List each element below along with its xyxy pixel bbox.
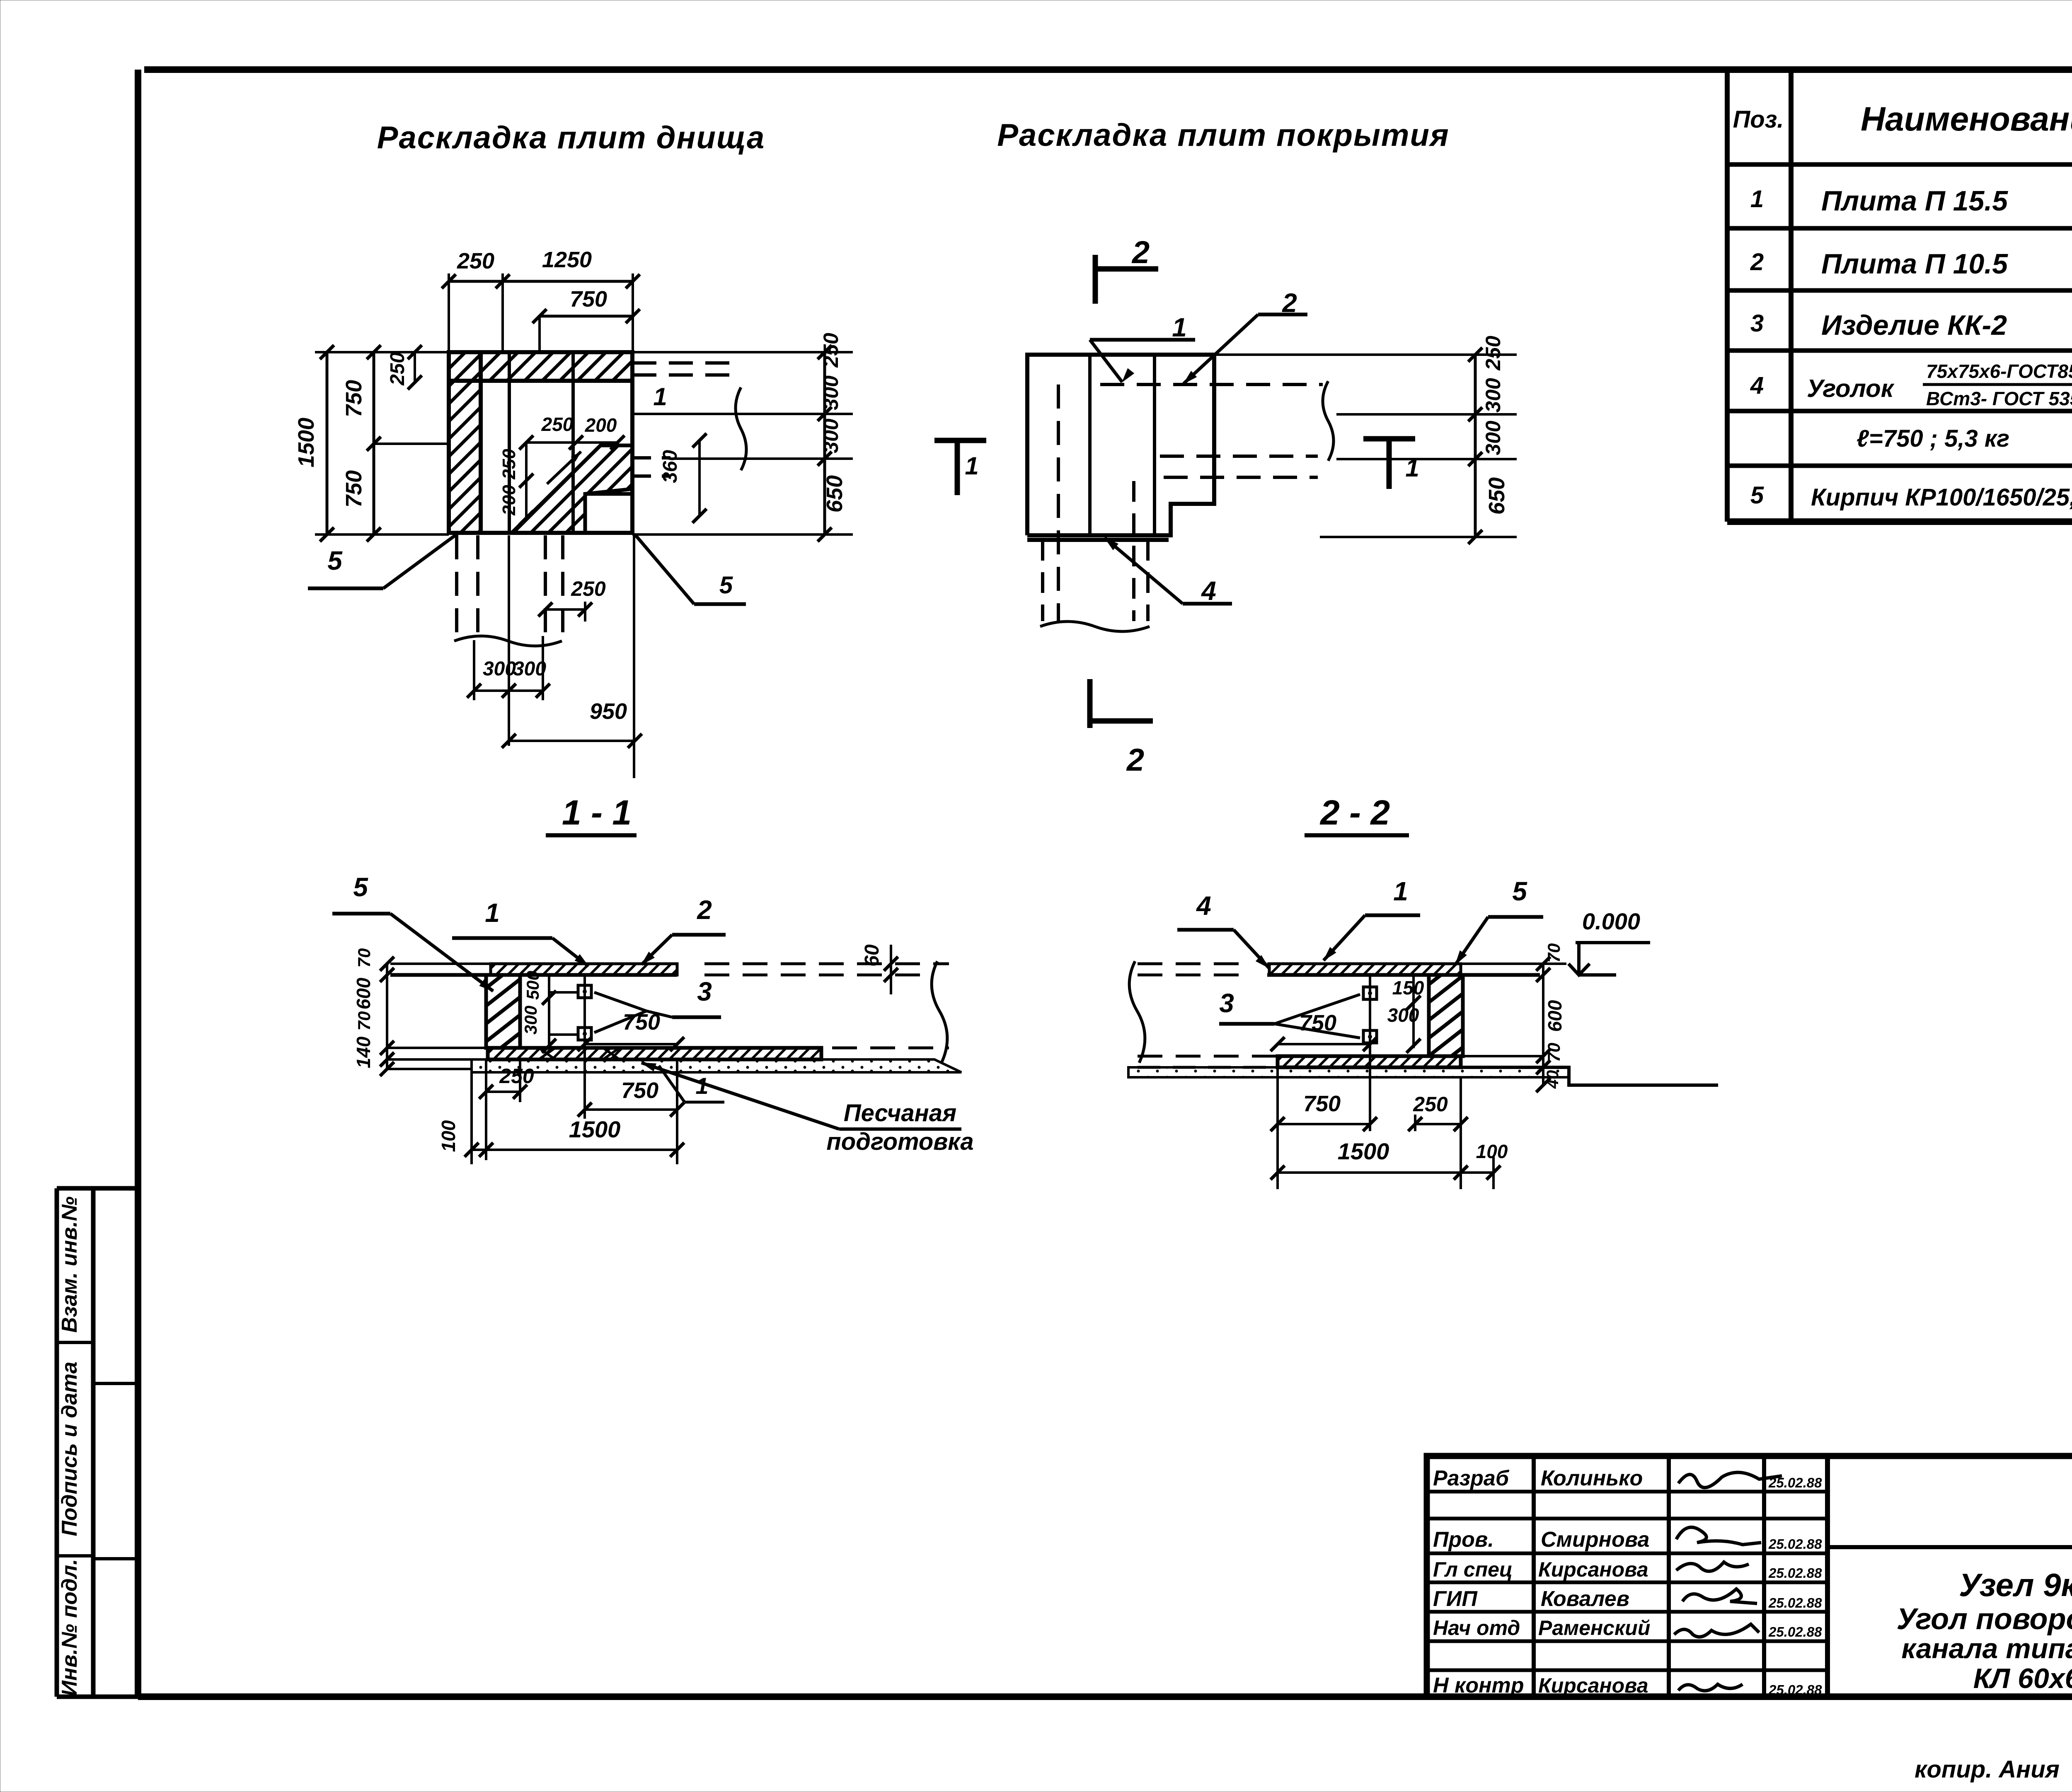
s11 dim 100 (472, 1149, 486, 1151)
view2 right ext lines (1216, 355, 1517, 537)
s11 anchor column line (583, 975, 586, 1073)
s22 top plate hatched (1269, 964, 1461, 975)
svg-text:750: 750 (341, 470, 366, 508)
s22 dim 750 bottom (1278, 1123, 1370, 1125)
svg-text:500: 500 (523, 971, 542, 1000)
view2 dashed wall lines (1100, 383, 1323, 386)
view2 right dim chain (1474, 355, 1477, 537)
svg-text:750: 750 (621, 1078, 658, 1103)
view1 right dim chain (823, 352, 826, 534)
s11 sand layer (472, 1059, 961, 1072)
view2 wavy break right (1323, 381, 1334, 461)
view1 top plate band hatch (449, 352, 632, 381)
view1 left ext lines (315, 352, 449, 534)
s11 left dim chain (386, 964, 388, 1069)
view2 section mark 1 right (1363, 436, 1415, 442)
svg-text:Колинько: Колинько (1541, 1466, 1643, 1490)
svg-text:1: 1 (1172, 312, 1187, 342)
svg-text:4: 4 (1196, 891, 1211, 921)
svg-text:Кирпич КР100/1650/25,м³: Кирпич КР100/1650/25,м³ (1811, 484, 2072, 511)
specification table grid (1727, 70, 2072, 522)
s11 anchor plates (578, 985, 591, 998)
svg-text:300: 300 (1387, 1004, 1419, 1026)
svg-text:360: 360 (659, 450, 681, 483)
svg-text:Раскладка плит днища: Раскладка плит днища (377, 120, 765, 155)
s22 dim 100 (1461, 1171, 1493, 1174)
svg-text:Плита П 10.5: Плита П 10.5 (1821, 248, 2008, 280)
svg-text:250: 250 (1481, 336, 1505, 371)
svg-text:1250: 1250 (542, 247, 592, 272)
view1 plate joints (509, 352, 573, 533)
svg-text:250: 250 (499, 449, 519, 480)
s22 wavy break left (1129, 961, 1145, 1063)
svg-text:250: 250 (541, 414, 574, 435)
svg-text:150: 150 (1392, 977, 1424, 999)
svg-text:Кирсанова: Кирсанова (1538, 1558, 1648, 1581)
svg-text:70: 70 (1544, 943, 1564, 963)
svg-text:70: 70 (1544, 1043, 1564, 1062)
svg-text:2: 2 (697, 895, 712, 925)
s11 brick wall hatched (486, 975, 520, 1048)
view1 bottom dims 300 300 (474, 689, 543, 692)
s11 dim 750 inner (585, 1043, 677, 1045)
view1 bottom dim 250 (545, 608, 585, 611)
s22 dims 150 300 (1412, 975, 1415, 1048)
view1 left plate band hatch (449, 352, 481, 533)
svg-text:250: 250 (387, 352, 409, 386)
svg-text:3: 3 (697, 977, 712, 1006)
svg-text:300: 300 (819, 375, 842, 410)
view1 dashed walls right (632, 361, 736, 365)
view2 plate joints (1090, 355, 1155, 535)
s22 ext verticals (1278, 1048, 1493, 1189)
svg-text:100: 100 (438, 1120, 459, 1152)
s11 dim 750 lower (585, 1108, 677, 1111)
svg-text:25.02.88: 25.02.88 (1768, 1536, 1822, 1552)
s22 top lines (1267, 963, 1540, 965)
view1 dim 250 small left (414, 352, 416, 382)
svg-text:25.02.88: 25.02.88 (1768, 1475, 1822, 1490)
svg-text:1: 1 (1393, 876, 1408, 906)
view1 inner dims 250 200 (526, 441, 617, 444)
svg-text:Ковалев: Ковалев (1541, 1587, 1629, 1611)
svg-text:140: 140 (353, 1036, 374, 1068)
svg-text:1: 1 (1750, 186, 1764, 213)
view1 wavy break right (736, 387, 746, 470)
view1 bottom-right cut plate hatch (512, 445, 632, 533)
view1 label 1 line (634, 413, 853, 415)
svg-text:3: 3 (1750, 310, 1764, 337)
svg-text:600: 600 (353, 977, 374, 1009)
view1 wavy break bottom (454, 636, 562, 646)
svg-text:Наименование: Наименование (1861, 100, 2072, 138)
title block verticals (1534, 1456, 1764, 1697)
svg-text:Н контр: Н контр (1433, 1674, 1524, 1698)
svg-text:40: 40 (1544, 1070, 1562, 1089)
svg-text:300: 300 (483, 658, 516, 680)
s22 dim 250 bottom (1415, 1123, 1461, 1125)
title block outer (1427, 1456, 2072, 1697)
view2 wavy break bottom (1040, 622, 1150, 631)
svg-text:25.02.88: 25.02.88 (1768, 1624, 1822, 1640)
svg-text:300: 300 (1481, 378, 1505, 413)
svg-text:650: 650 (1484, 477, 1509, 515)
svg-text:Смирнова: Смирнова (1541, 1528, 1649, 1552)
s11 dim 1500 (486, 1149, 677, 1151)
s11 dim 250 (486, 1091, 520, 1093)
view1 inner corner lines (481, 379, 632, 383)
svg-text:1500: 1500 (294, 418, 319, 467)
svg-text:2: 2 (1126, 742, 1144, 778)
svg-text:Нач отд: Нач отд (1433, 1616, 1520, 1640)
svg-text:25.02.88: 25.02.88 (1768, 1565, 1822, 1581)
svg-text:750: 750 (623, 1010, 660, 1035)
view1 left dim chain 1500 (326, 352, 329, 534)
svg-text:2: 2 (1131, 235, 1150, 270)
view2 section mark 2 top (1093, 255, 1098, 304)
svg-text:5: 5 (1750, 482, 1764, 509)
s11 top plate hatched (491, 964, 677, 975)
s11 top lines (390, 963, 677, 965)
view1 dim 750 top (540, 315, 633, 318)
s11 dim 60 (890, 945, 892, 994)
svg-text:750: 750 (1303, 1091, 1341, 1116)
svg-text:200: 200 (585, 414, 617, 436)
svg-text:750: 750 (1299, 1011, 1336, 1035)
svg-text:Поз.: Поз. (1733, 106, 1784, 133)
s22 bottom plate band (1278, 1056, 1461, 1067)
svg-text:Кирсанова: Кирсанова (1538, 1674, 1648, 1697)
svg-text:60: 60 (861, 944, 883, 967)
svg-text:3: 3 (1219, 988, 1234, 1018)
svg-text:250: 250 (499, 1064, 534, 1088)
svg-text:Песчаная: Песчаная (844, 1100, 956, 1127)
svg-text:25.02.88: 25.02.88 (1768, 1682, 1822, 1698)
svg-text:Уголок: Уголок (1807, 375, 1895, 402)
svg-text:25.02.88: 25.02.88 (1768, 1595, 1822, 1611)
svg-text:5: 5 (327, 546, 343, 576)
view2 outline (1027, 355, 1214, 540)
title block horizontals (1828, 1545, 2072, 1549)
svg-text:250: 250 (571, 577, 606, 600)
svg-text:ГИП: ГИП (1433, 1587, 1478, 1611)
s22 anchor column line (1369, 975, 1371, 1073)
view1 bottom dim 950 (509, 740, 635, 742)
svg-text:5: 5 (1512, 876, 1527, 906)
svg-text:копир. Ания: копир. Ания (1915, 1756, 2060, 1783)
svg-text:канала типа: канала типа (1901, 1633, 2072, 1664)
s22 dim 1500 (1278, 1171, 1461, 1174)
svg-text:200: 200 (499, 485, 519, 516)
s22 right ext lines (1463, 964, 1566, 1056)
svg-text:70: 70 (354, 1011, 374, 1031)
view1 left dim chain 750 750 (373, 352, 375, 534)
svg-text:300: 300 (1481, 421, 1505, 455)
svg-text:4: 4 (1201, 576, 1216, 606)
svg-text:Плита П 15.5: Плита П 15.5 (1821, 185, 2008, 217)
s11 bottom plate band (488, 1048, 821, 1059)
s11 inner vert dims 150 300 (548, 975, 550, 1048)
svg-text:Разраб: Разраб (1433, 1466, 1510, 1490)
svg-text:1500: 1500 (1338, 1138, 1389, 1164)
s11 wavy break right (932, 961, 947, 1063)
svg-text:ВСт3- ГОСТ 535-79*: ВСт3- ГОСТ 535-79* (1926, 388, 2072, 409)
svg-text:600: 600 (1544, 1000, 1566, 1032)
svg-text:250: 250 (457, 249, 494, 273)
svg-text:2 - 2: 2 - 2 (1319, 793, 1390, 832)
view1 dim 360 (698, 440, 701, 516)
svg-text:1: 1 (965, 452, 978, 480)
svg-text:750: 750 (341, 380, 366, 417)
svg-text:1500: 1500 (569, 1116, 621, 1142)
svg-text:ℓ=750 ; 5,3 кг: ℓ=750 ; 5,3 кг (1857, 425, 2009, 452)
svg-text:Подпись и дата: Подпись и дата (58, 1362, 82, 1536)
view1 top dim chain 250 1250 (449, 280, 633, 283)
signature squiggles (1678, 1473, 1782, 1488)
s11 dashed bottom right (718, 1047, 949, 1050)
s11 ext verticals (472, 1059, 677, 1164)
svg-text:Узел 9к: Узел 9к (1959, 1567, 2072, 1603)
svg-text:950: 950 (590, 699, 627, 724)
svg-text:Инв.№ подл.: Инв.№ подл. (58, 1559, 82, 1696)
s22 dim 750 inner (1278, 1043, 1370, 1045)
view1 dashed walls bottom (455, 535, 458, 637)
svg-text:Взам. инв.№: Взам. инв.№ (58, 1197, 82, 1333)
svg-text:Изделие КК-2: Изделие КК-2 (1821, 310, 2007, 341)
s22 right dim chain (1542, 964, 1544, 1085)
svg-text:1 - 1: 1 - 1 (562, 793, 632, 832)
svg-text:2: 2 (1750, 249, 1764, 276)
svg-text:КЛ 60х60: КЛ 60х60 (1973, 1663, 2072, 1694)
svg-text:70: 70 (354, 948, 374, 968)
s22 anchor plates (1363, 987, 1377, 999)
svg-text:650: 650 (822, 475, 847, 513)
left stamp strip (57, 1188, 138, 1697)
svg-text:75х75х6-ГОСТ8509-86: 75х75х6-ГОСТ8509-86 (1926, 360, 2072, 382)
view2 section mark 1 left (934, 438, 986, 443)
view2 section mark 2 bottom (1087, 679, 1093, 728)
view1 small leader in cut plate (547, 452, 581, 484)
s22 sand layer (1128, 1067, 1569, 1077)
svg-text:300: 300 (819, 418, 842, 453)
svg-text:300: 300 (521, 1006, 540, 1035)
svg-text:1: 1 (653, 383, 667, 411)
svg-text:Раскладка плит покрытия: Раскладка плит покрытия (997, 118, 1449, 153)
s22 dashed bottom left (1138, 1055, 1276, 1058)
svg-text:100: 100 (1476, 1141, 1508, 1162)
view1 outer square (449, 352, 632, 533)
svg-text:Пров.: Пров. (1433, 1528, 1494, 1552)
view1 notch lines (585, 494, 632, 533)
view1 right ext lines (632, 352, 853, 534)
svg-text:750: 750 (570, 287, 607, 312)
svg-text:5: 5 (353, 872, 368, 902)
svg-text:0.000: 0.000 (1582, 908, 1640, 934)
svg-text:1: 1 (485, 898, 500, 928)
svg-text:Гл спец: Гл спец (1433, 1558, 1513, 1581)
svg-text:5: 5 (719, 572, 733, 599)
svg-text:300: 300 (513, 658, 546, 680)
svg-text:подготовка: подготовка (826, 1128, 973, 1155)
svg-text:Угол поворота: Угол поворота (1896, 1603, 2072, 1636)
svg-text:250: 250 (1413, 1093, 1448, 1116)
s22 ground step right (1461, 1067, 1718, 1085)
svg-text:250: 250 (819, 333, 842, 368)
s11 joint X marks (539, 1048, 620, 1059)
s22 brick wall hatched (1429, 975, 1463, 1056)
svg-text:Раменский: Раменский (1538, 1616, 1650, 1640)
svg-text:4: 4 (1750, 372, 1764, 399)
